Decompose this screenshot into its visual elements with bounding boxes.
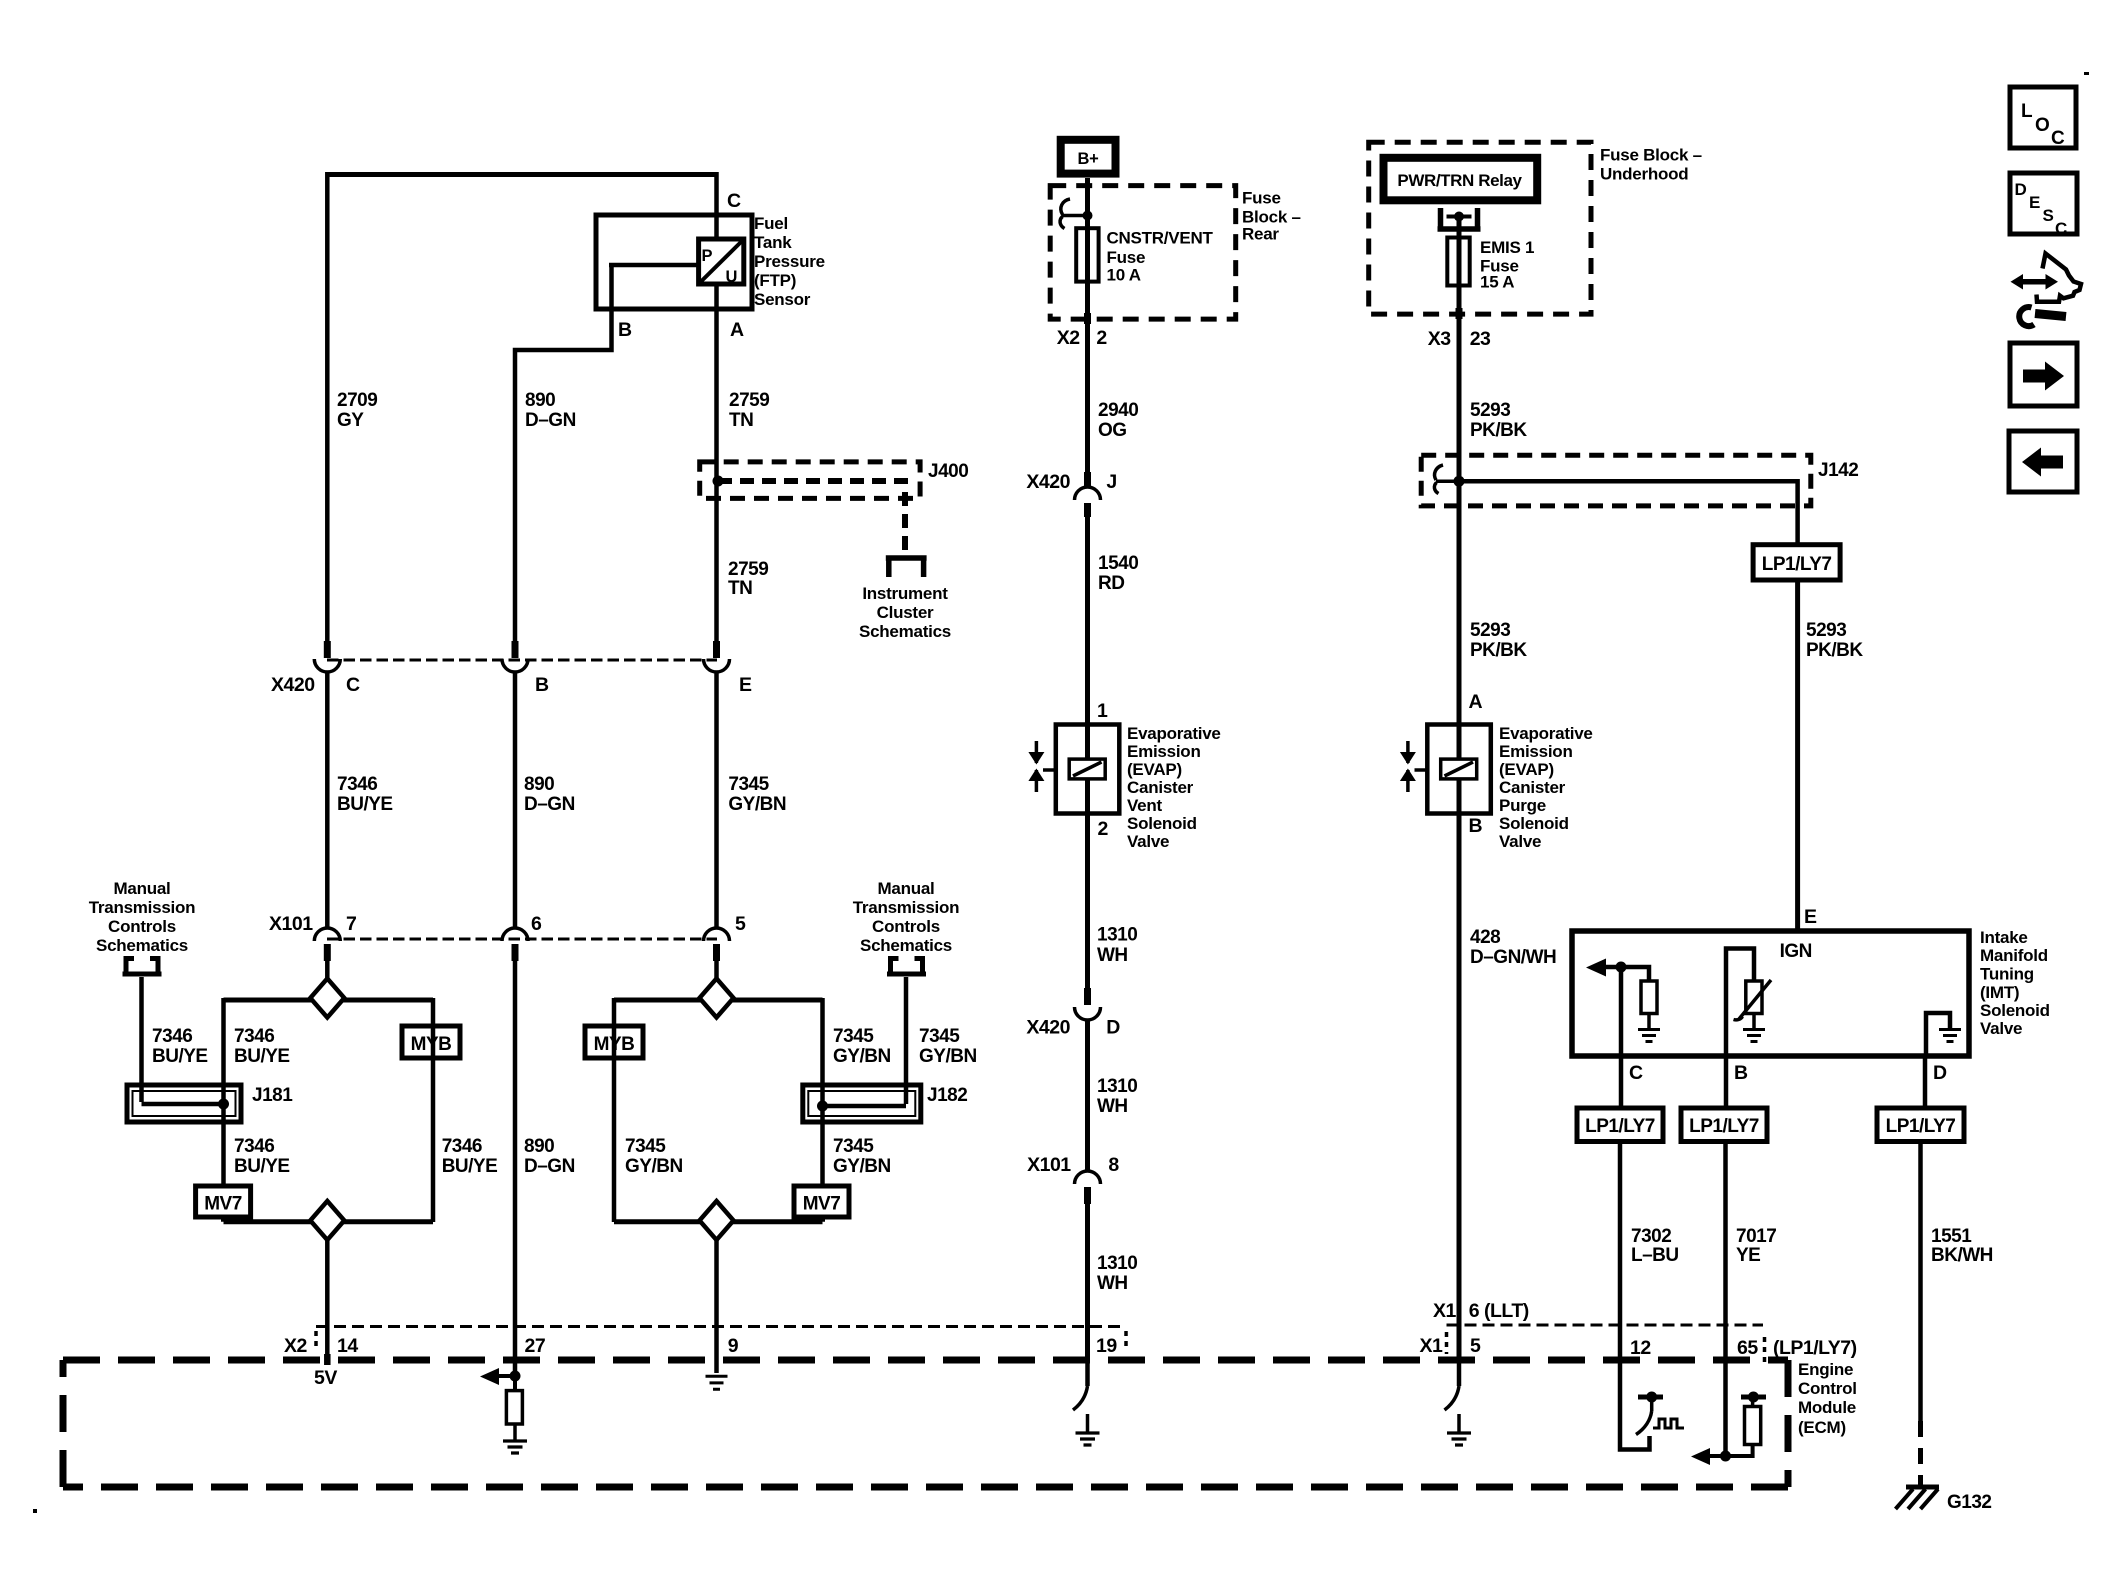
label: wire 2759 TN lower <box>728 559 768 599</box>
connector MYB box (left loop) <box>402 1026 460 1058</box>
svg-text:BK/WH: BK/WH <box>1931 1245 1993 1266</box>
label: Fuse Block - Underhood <box>1600 146 1702 184</box>
label: CNSTR/VENT Fuse 10 A <box>1107 229 1214 285</box>
svg-text:J: J <box>1106 471 1116 493</box>
wire: bracket lead into J182 <box>904 977 909 1104</box>
ground symbol (IMT resistor) <box>1638 1030 1660 1042</box>
svg-text:7346: 7346 <box>152 1026 192 1047</box>
navigation icon: next arrow box <box>2010 343 2077 406</box>
svg-text:X420: X420 <box>1026 471 1070 493</box>
wire through vent solenoid <box>1085 724 1090 815</box>
svg-text:1310: 1310 <box>1097 924 1137 945</box>
ground symbol (IMT thermistor) <box>1743 1030 1765 1042</box>
connector X420-B stub and cup <box>502 641 528 672</box>
wire: J142 jumper to LP1/LY7 branch <box>1459 481 1798 545</box>
svg-text:(FTP): (FTP) <box>754 271 796 290</box>
svg-text:MYB: MYB <box>411 1034 452 1055</box>
svg-text:J182: J182 <box>927 1085 967 1106</box>
svg-text:2709: 2709 <box>337 390 377 411</box>
fuse tap clip symbol <box>1060 199 1087 229</box>
ground symbol (pin 27) <box>503 1441 527 1453</box>
svg-text:MV7: MV7 <box>803 1194 841 1215</box>
svg-text:Fuse: Fuse <box>1107 248 1146 267</box>
svg-text:D–GN/WH: D–GN/WH <box>1470 947 1556 968</box>
svg-text:7345: 7345 <box>833 1136 874 1157</box>
connector row X420 C/B/E dashed line <box>327 659 717 662</box>
svg-text:TN: TN <box>729 410 753 431</box>
wire: top horizontal 2709 GY feed <box>327 172 716 177</box>
Fuel Tank Pressure (FTP) Sensor box <box>596 215 752 309</box>
wire: right loop top rail <box>614 998 823 1003</box>
connector MV7 box (right loop) <box>794 1186 849 1217</box>
svg-text:CNSTR/VENT: CNSTR/VENT <box>1107 229 1214 248</box>
svg-text:BU/YE: BU/YE <box>234 1156 290 1177</box>
splice J182 box <box>803 1085 921 1122</box>
stray print speck top right <box>2084 72 2089 75</box>
svg-text:B: B <box>1734 1062 1748 1084</box>
svg-text:1540: 1540 <box>1098 553 1138 574</box>
svg-text:PWR/TRN Relay: PWR/TRN Relay <box>1397 171 1522 190</box>
svg-text:X420: X420 <box>1026 1017 1070 1039</box>
vent solenoid coil symbol <box>1069 759 1105 779</box>
svg-text:C: C <box>727 190 741 212</box>
svg-text:X2: X2 <box>284 1335 308 1357</box>
svg-text:PK/BK: PK/BK <box>1806 640 1863 661</box>
connector boundary end tick right of 19 <box>1124 1331 1128 1351</box>
svg-text:Sensor: Sensor <box>754 290 811 309</box>
label: wire 2759 TN upper <box>729 390 769 431</box>
label: Evaporative Emission (EVAP) Canister Purge Solenoid Valve <box>1499 724 1593 851</box>
wire: left loop top rail <box>224 998 434 1003</box>
svg-text:D: D <box>2015 180 2027 199</box>
wire: 890 D-GN middle drop <box>513 671 518 929</box>
wire: through fuse to X3 <box>1457 237 1462 330</box>
svg-text:MV7: MV7 <box>204 1194 242 1215</box>
wire: J400 jumper to instrument cluster (heavy dashed) <box>718 481 905 553</box>
connector boundary tick at X1 5 <box>1445 1332 1449 1354</box>
svg-text:5293: 5293 <box>1806 620 1846 641</box>
label: wire 2940 OG <box>1098 400 1138 441</box>
svg-text:E: E <box>739 674 752 696</box>
svg-text:14: 14 <box>337 1335 358 1357</box>
svg-text:PK/BK: PK/BK <box>1470 640 1527 661</box>
node: J400 junction dot <box>713 476 724 487</box>
label: wire 7345 GY/BN (bracket lead) <box>919 1026 977 1067</box>
IMT internal: D pin ground lead <box>1926 1013 1950 1056</box>
svg-text:U: U <box>726 268 738 286</box>
connector X101-6 dome and stub <box>502 928 528 961</box>
svg-text:7345: 7345 <box>625 1136 666 1157</box>
wire: 890 D-GN through to ECM <box>513 961 518 1378</box>
svg-text:X101: X101 <box>269 913 313 935</box>
label: wire 7346 BU/YE <box>337 774 393 815</box>
splice diamond top-right <box>700 979 734 1018</box>
option box LP1/LY7 (pin B) <box>1681 1108 1767 1142</box>
svg-text:7345: 7345 <box>833 1026 874 1047</box>
label: wire 7346 BU/YE (loop left) <box>234 1026 290 1067</box>
wire: left loop bottom rail <box>224 1216 434 1222</box>
svg-text:7345: 7345 <box>728 774 769 795</box>
svg-text:D–GN: D–GN <box>524 794 575 815</box>
svg-text:WH: WH <box>1097 945 1128 966</box>
Intake Manifold Tuning (IMT) solenoid valve box <box>1572 931 1969 1056</box>
svg-text:23: 23 <box>1470 328 1491 350</box>
svg-text:Schematics: Schematics <box>860 936 952 955</box>
svg-text:O: O <box>2035 115 2050 136</box>
connector X101-8 dome and stub <box>1075 1171 1101 1204</box>
svg-text:A: A <box>730 319 744 341</box>
wire: 7302 L-BU drop to ECM pin 12 <box>1618 1142 1623 1361</box>
svg-text:C: C <box>2051 128 2065 149</box>
svg-text:B: B <box>618 319 632 341</box>
connector boundary end tick left <box>314 1331 318 1351</box>
svg-text:E: E <box>2029 193 2040 212</box>
svg-text:Rear: Rear <box>1242 225 1279 244</box>
connector stub through underhood block edge <box>1456 308 1463 319</box>
label: wire 428 D-GN/WH <box>1470 927 1556 968</box>
switch blade to ground (pin X1-5) <box>1445 1360 1460 1410</box>
svg-text:C: C <box>346 674 360 696</box>
wire: IMT pin D to LP1/LY7 <box>1923 1056 1928 1108</box>
svg-text:(LP1/LY7): (LP1/LY7) <box>1773 1337 1857 1359</box>
label: wire 1540 RD <box>1098 553 1138 594</box>
resistor inside ECM (pin 27 pull) <box>506 1376 522 1441</box>
svg-text:Solenoid: Solenoid <box>1127 814 1197 833</box>
FTP sensor internal P/U transducer symbol <box>699 239 744 286</box>
svg-text:7346: 7346 <box>337 774 377 795</box>
svg-text:BU/YE: BU/YE <box>442 1156 498 1177</box>
connector X101-7 dome and stub <box>314 928 340 961</box>
option box LP1/LY7 (top) <box>1753 545 1840 580</box>
off-page bracket to instrument cluster <box>886 558 927 577</box>
label: wire 5293 PK/BK (left) <box>1470 620 1527 661</box>
svg-text:Intake: Intake <box>1980 928 2028 947</box>
svg-text:1: 1 <box>1097 700 1108 722</box>
svg-text:Cluster: Cluster <box>877 603 934 622</box>
label: wire 7345 GY/BN (below J182) <box>833 1136 891 1177</box>
label: Evaporative Emission (EVAP) Canister Vent Solenoid Valve <box>1127 724 1221 851</box>
connector boundary tick at 65 <box>1763 1337 1767 1363</box>
svg-text:6 (LLT): 6 (LLT) <box>1469 1300 1529 1322</box>
svg-text:2940: 2940 <box>1098 400 1138 421</box>
wire: 428 D-GN/WH drop to ECM X1-5 <box>1457 813 1462 1360</box>
IMT internal: arrow and C pin lead <box>1586 959 1649 1057</box>
svg-text:B: B <box>535 674 549 696</box>
svg-text:2759: 2759 <box>729 390 769 411</box>
signal arrow left (pin 65) <box>1691 1448 1726 1465</box>
svg-text:GY/BN: GY/BN <box>833 1156 891 1177</box>
connector X420-E stub and cup <box>704 641 730 672</box>
label: wire 890 D-GN <box>524 774 575 815</box>
svg-text:Transmission: Transmission <box>89 898 196 917</box>
svg-text:OG: OG <box>1098 420 1127 441</box>
svg-text:12: 12 <box>1630 1337 1651 1359</box>
svg-text:1551: 1551 <box>1931 1226 1972 1247</box>
navigation icon DESC box <box>2010 173 2077 238</box>
label: wire 5293 PK/BK (right) <box>1806 620 1863 661</box>
svg-text:YE: YE <box>1736 1245 1760 1266</box>
svg-text:WH: WH <box>1097 1096 1128 1117</box>
svg-text:J181: J181 <box>252 1085 293 1106</box>
label: wire 5293 PK/BK <box>1470 400 1527 441</box>
svg-text:27: 27 <box>525 1335 546 1357</box>
svg-text:(IMT): (IMT) <box>1980 983 2019 1002</box>
label: wire 1310 WH (3) <box>1097 1253 1137 1294</box>
label: Fuel Tank Pressure (FTP) Sensor <box>754 214 825 309</box>
svg-text:5V: 5V <box>314 1367 337 1389</box>
resistor inside ECM (pin 65 pull-up) <box>1726 1397 1767 1456</box>
ground symbol (pin 19) <box>1076 1414 1100 1445</box>
svg-text:LP1/LY7: LP1/LY7 <box>1886 1116 1956 1137</box>
svg-text:PK/BK: PK/BK <box>1470 420 1527 441</box>
svg-text:GY/BN: GY/BN <box>625 1156 683 1177</box>
svg-text:Fuel: Fuel <box>754 214 788 233</box>
wire: IMT pin B to LP1/LY7 <box>1724 1056 1729 1108</box>
svg-text:D: D <box>1106 1017 1120 1039</box>
svg-text:GY: GY <box>337 410 364 431</box>
wire: ECM pin 12 internal L-lead <box>1620 1360 1650 1450</box>
svg-text:EMIS 1: EMIS 1 <box>1480 238 1534 257</box>
svg-text:IGN: IGN <box>1780 941 1812 962</box>
wire: left vertical 2709 GY <box>325 172 330 641</box>
connector X101-5 dome and stub <box>704 928 730 961</box>
svg-text:X1: X1 <box>1433 1300 1457 1322</box>
svg-text:Schematics: Schematics <box>96 936 188 955</box>
label: wire 7345 GY/BN (loop right branch) <box>833 1026 891 1067</box>
option box LP1/LY7 (pin D) <box>1877 1108 1964 1142</box>
splice diamond bottom-right <box>700 1201 734 1240</box>
svg-text:D: D <box>1933 1062 1947 1084</box>
svg-text:Emission: Emission <box>1127 742 1201 761</box>
svg-text:428: 428 <box>1470 927 1500 948</box>
splice J400 dashed box <box>700 462 920 499</box>
node: ECM pin 27 junction dot <box>510 1371 521 1382</box>
svg-text:D–GN: D–GN <box>525 410 576 431</box>
svg-text:L: L <box>2021 101 2033 122</box>
label: wire 7346 BU/YE (loop right) <box>442 1136 498 1177</box>
svg-text:Canister: Canister <box>1127 778 1194 797</box>
wire: 5293 PK/BK drop to J142 <box>1457 330 1462 481</box>
svg-text:BU/YE: BU/YE <box>234 1046 290 1067</box>
svg-text:Instrument: Instrument <box>862 584 948 603</box>
svg-text:Transmission: Transmission <box>853 898 960 917</box>
wire: 2940 OG drop <box>1085 320 1090 487</box>
label: wire 7345 GY/BN <box>728 774 786 815</box>
wire: right loop left branch <box>612 998 617 1222</box>
node: relay output junction dot <box>1454 212 1464 222</box>
svg-text:G132: G132 <box>1947 1492 1991 1513</box>
svg-text:890: 890 <box>524 774 554 795</box>
wire: FTP internal pin B lead <box>515 265 699 641</box>
svg-text:Valve: Valve <box>1980 1019 2022 1038</box>
svg-text:8: 8 <box>1108 1154 1119 1176</box>
node: J142 junction dot <box>1454 476 1465 487</box>
svg-text:Control: Control <box>1798 1379 1857 1398</box>
label: Intake Manifold Tuning (IMT) Solenoid Valve <box>1980 928 2050 1038</box>
svg-text:7346: 7346 <box>234 1136 274 1157</box>
Fuse Block - Underhood dashed box <box>1369 142 1591 314</box>
node: fuse feed junction dot <box>1083 211 1093 221</box>
wire: 5293 PK/BK drop (right) to IMT pin E <box>1795 580 1800 931</box>
wire: bracket lead into J181 <box>139 977 144 1102</box>
wire: from bottom-right diamond down to ECM pin 9 <box>714 1240 719 1373</box>
svg-text:GY/BN: GY/BN <box>833 1046 891 1067</box>
Engine Control Module (ECM) dashed box <box>63 1360 1788 1487</box>
svg-text:GY/BN: GY/BN <box>728 794 786 815</box>
navigation icon: previous arrow box <box>2009 431 2077 492</box>
svg-text:Engine: Engine <box>1798 1360 1853 1379</box>
svg-text:Purge: Purge <box>1499 796 1546 815</box>
wire: left loop right branch <box>431 998 436 1222</box>
svg-text:7: 7 <box>346 913 356 935</box>
svg-text:A: A <box>1469 691 1483 713</box>
svg-text:(EVAP): (EVAP) <box>1499 760 1554 779</box>
svg-text:1310: 1310 <box>1097 1076 1137 1097</box>
svg-text:5293: 5293 <box>1470 620 1510 641</box>
svg-text:TN: TN <box>728 578 752 599</box>
wire: stub into right splice diamond <box>714 961 719 982</box>
label: wire 1310 WH <box>1097 924 1137 965</box>
node: J181 junction dot <box>218 1099 229 1110</box>
chassis ground G132 symbol <box>1896 1487 1940 1509</box>
off-page bracket right (manual transmission) <box>887 956 926 974</box>
label: Instrument Cluster Schematics <box>859 584 951 641</box>
wire: right loop bottom rail <box>614 1216 823 1222</box>
connector boundary thin dashed line (X2 / 19 segment) <box>316 1325 1126 1328</box>
node: pull-up top dot <box>1748 1392 1759 1403</box>
svg-text:Valve: Valve <box>1127 832 1169 851</box>
svg-text:Manual: Manual <box>113 879 170 898</box>
relay output bracket <box>1438 208 1481 229</box>
node: pin 65 junction dot <box>1720 1451 1731 1462</box>
label: wire 7346 BU/YE (below J181) <box>234 1136 290 1177</box>
option box LP1/LY7 (pin C) <box>1577 1108 1663 1142</box>
purge solenoid coil symbol <box>1441 759 1477 779</box>
IMT internal resistor <box>1641 981 1657 1028</box>
wire: ECM pin 65 internal lead <box>1723 1360 1728 1456</box>
svg-text:Solenoid: Solenoid <box>1980 1001 2050 1020</box>
svg-text:B+: B+ <box>1078 150 1099 168</box>
svg-text:7346: 7346 <box>234 1026 274 1047</box>
splice diamond top-left <box>310 979 344 1018</box>
splice diamond bottom-left <box>310 1201 344 1240</box>
label: Fuse Block - Rear <box>1242 189 1301 244</box>
node: IMT C junction dot <box>1616 962 1627 973</box>
svg-text:Underhood: Underhood <box>1600 165 1688 184</box>
svg-text:J142: J142 <box>1818 460 1858 481</box>
navigation icon: vehicle diagnostic glyph <box>2011 254 2082 327</box>
wire: 5293 PK/BK drop (left) to purge solenoid <box>1457 481 1462 725</box>
label: wire 1310 WH (2) <box>1097 1076 1137 1117</box>
svg-text:Valve: Valve <box>1499 832 1541 851</box>
wire: 7346 BU/YE left drop <box>325 671 330 929</box>
splice J142 dashed box <box>1421 455 1811 506</box>
svg-text:X2: X2 <box>1057 327 1081 349</box>
node: J182 junction dot <box>817 1101 828 1112</box>
svg-text:5: 5 <box>735 913 746 935</box>
connector X420-D stub and cup <box>1075 988 1101 1020</box>
connector X420-C stub and cup <box>314 641 340 672</box>
svg-text:2: 2 <box>1098 818 1109 840</box>
power feed B+ terminal box <box>1061 140 1116 174</box>
wire: FTP pin C vertical 2759 TN <box>714 172 719 641</box>
splice clip symbol inside J142 <box>1434 465 1459 494</box>
svg-text:5293: 5293 <box>1470 400 1510 421</box>
wire: 1310 WH drop 2 <box>1085 1019 1090 1172</box>
svg-text:Solenoid: Solenoid <box>1499 814 1569 833</box>
svg-text:BU/YE: BU/YE <box>152 1046 208 1067</box>
label: wire 890 D-GN <box>525 390 576 431</box>
low-side driver symbol (pin 12) <box>1636 1392 1684 1435</box>
label: wire 1551 BK/WH <box>1931 1226 1993 1266</box>
stray print speck bottom left <box>33 1509 37 1513</box>
svg-text:Evaporative: Evaporative <box>1499 724 1593 743</box>
wire: fuse inside element <box>1085 228 1090 320</box>
navigation icon LOC box <box>2010 87 2076 149</box>
EVAP canister vent solenoid valve box <box>1056 725 1120 814</box>
svg-text:LP1/LY7: LP1/LY7 <box>1689 1116 1759 1137</box>
svg-text:(EVAP): (EVAP) <box>1127 760 1182 779</box>
svg-text:10 A: 10 A <box>1107 266 1141 285</box>
svg-text:Module: Module <box>1798 1398 1856 1417</box>
IMT internal: B pin lead and thermistor <box>1726 949 1771 1057</box>
label: wire 7302 L-BU <box>1631 1226 1679 1266</box>
fuse CNSTR/VENT 10A element <box>1076 228 1098 281</box>
svg-text:Evaporative: Evaporative <box>1127 724 1221 743</box>
svg-text:X420: X420 <box>271 674 315 696</box>
connector boundary thin dashed line (X1 segment) <box>1447 1324 1764 1327</box>
signal arrow left (pin 27) <box>480 1368 515 1385</box>
svg-text:7302: 7302 <box>1631 1226 1671 1247</box>
wire: 7345 GY/BN right drop <box>714 671 719 929</box>
svg-text:890: 890 <box>524 1136 554 1157</box>
wire: stub into left splice diamond <box>325 961 330 982</box>
svg-text:RD: RD <box>1098 573 1124 594</box>
svg-text:Controls: Controls <box>108 917 176 936</box>
wire: 1551 BK/WH drop (solid) <box>1918 1142 1923 1422</box>
wire: IMT pin C to LP1/LY7 <box>1619 1056 1624 1108</box>
svg-text:Manifold: Manifold <box>1980 946 2048 965</box>
wire: 1310 WH drop 1 <box>1085 813 1090 1005</box>
label: Manual Transmission Controls Schematics (right) <box>853 879 960 955</box>
svg-text:Tuning: Tuning <box>1980 965 2034 984</box>
label: wire 7345 GY/BN (loop left branch) <box>625 1136 683 1177</box>
ground symbol (IMT D pin) <box>1939 1030 1961 1042</box>
svg-text:Canister: Canister <box>1499 778 1566 797</box>
svg-text:GY/BN: GY/BN <box>919 1046 977 1067</box>
label: wire 7346 BU/YE (bracket lead) <box>152 1026 208 1067</box>
connector MV7 box (left loop) <box>196 1186 251 1217</box>
wire: B+ feed down <box>1085 178 1090 231</box>
label: wire 2709 GY <box>337 390 377 431</box>
connector MYB box (right loop) <box>585 1026 643 1058</box>
svg-text:Tank: Tank <box>754 233 792 252</box>
wire: from bottom-left diamond down to ECM pin 14 <box>325 1240 330 1365</box>
svg-text:5: 5 <box>1470 1335 1481 1357</box>
svg-text:7346: 7346 <box>442 1136 482 1157</box>
wire: relay to fuse <box>1457 217 1462 241</box>
switch blade to ground (pin 19) <box>1073 1360 1088 1410</box>
svg-text:L–BU: L–BU <box>1631 1245 1679 1266</box>
svg-text:Fuse Block –: Fuse Block – <box>1600 146 1702 165</box>
svg-text:E: E <box>1804 906 1817 928</box>
connector stub through fuse block edge <box>1084 313 1091 324</box>
svg-text:J400: J400 <box>928 461 968 482</box>
ground symbol (pin X1-5) <box>1447 1414 1471 1445</box>
relay PWR/TRN box <box>1384 158 1538 201</box>
svg-text:1310: 1310 <box>1097 1253 1137 1274</box>
svg-text:WH: WH <box>1097 1273 1128 1294</box>
